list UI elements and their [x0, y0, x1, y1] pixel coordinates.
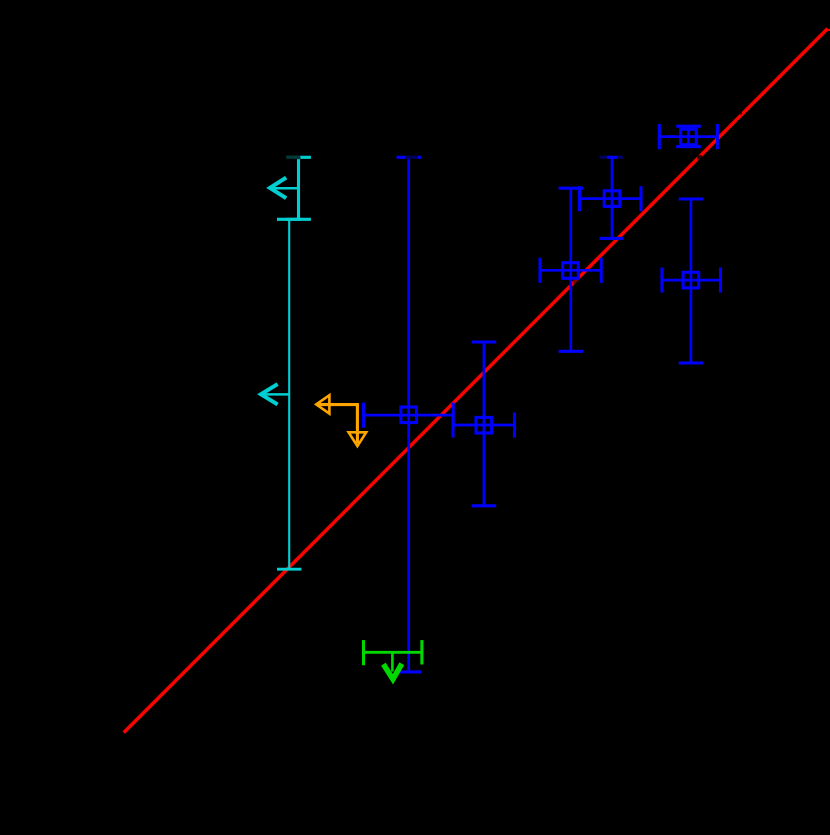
- cyan upper-limit bar A: [269, 157, 311, 219]
- cyan upper-limit bar B: [260, 219, 302, 569]
- dark dash crossing red line: [697, 155, 702, 159]
- data point P1 error bars: [659, 124, 717, 149]
- red one-to-one line: [124, 29, 828, 733]
- dark dashed-line overlay on P2 cap left: [599, 156, 607, 160]
- dark nick on red line upper edge: [739, 112, 742, 115]
- data point P3 error bars: [540, 188, 601, 351]
- data point P6 error bars: [662, 199, 721, 363]
- data point P4 error bars: [453, 342, 515, 506]
- data point P2 error bars: [580, 157, 642, 238]
- dark notch below P3 square: [573, 280, 578, 285]
- dark dashed-line overlay on P2 cap right: [617, 156, 624, 160]
- data point P5 error bars (large limits): [364, 157, 454, 672]
- green lower-limit point: [363, 640, 422, 679]
- dark nick on red line lower edge: [737, 120, 739, 122]
- dark dashed-line overlay on P5 cap: [405, 156, 418, 160]
- red line end speck: [828, 29, 830, 31]
- orange double upper limit: [316, 395, 366, 446]
- dark dashed-line overlay on cyan cap: [286, 156, 301, 160]
